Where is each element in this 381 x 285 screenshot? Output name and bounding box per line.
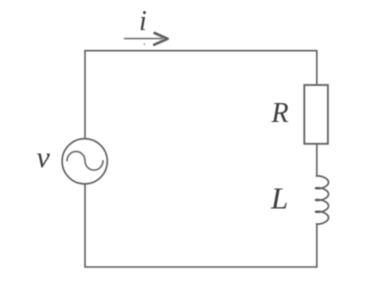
svg-text:v: v xyxy=(37,141,51,174)
svg-text:R: R xyxy=(271,98,289,129)
svg-text:L: L xyxy=(270,181,288,216)
svg-text:i: i xyxy=(139,6,147,37)
